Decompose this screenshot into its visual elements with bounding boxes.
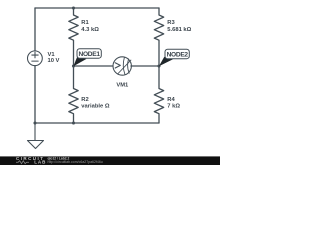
svg-text:7 kΩ: 7 kΩ bbox=[167, 103, 180, 109]
wire middle left (NODE1 to VM1) bbox=[74, 65, 114, 67]
svg-text:R2: R2 bbox=[81, 97, 88, 103]
node A flag NODE1 bbox=[73, 49, 101, 66]
svg-text:variable Ω: variable Ω bbox=[81, 103, 110, 109]
svg-text:R3: R3 bbox=[167, 20, 175, 26]
wire left vertical lower bbox=[34, 66, 36, 123]
watermark bar bbox=[0, 156, 220, 165]
resistor R1 bbox=[69, 8, 78, 66]
wire middle right (VM1 to NODE2) bbox=[131, 65, 159, 67]
resistor R4 bbox=[154, 66, 163, 123]
voltage source V1 bbox=[28, 51, 43, 66]
svg-text:4.3 kΩ: 4.3 kΩ bbox=[81, 27, 99, 33]
svg-text:NODE1: NODE1 bbox=[78, 51, 100, 58]
wire bottom horizontal bbox=[35, 122, 159, 124]
voltmeter VM1 bbox=[113, 57, 131, 75]
labels bbox=[48, 20, 192, 109]
resistor R2 bbox=[69, 66, 78, 123]
node dot NODE2 junction bbox=[157, 64, 160, 67]
wire left vertical upper bbox=[34, 8, 36, 51]
svg-text:VM1: VM1 bbox=[116, 83, 129, 89]
svg-text:R1: R1 bbox=[81, 20, 89, 26]
node dot bottom middle bbox=[72, 121, 75, 124]
wire top horizontal bbox=[35, 7, 159, 9]
svg-text:5.681 kΩ: 5.681 kΩ bbox=[167, 27, 191, 33]
svg-text:http://circuitlab.com/c6a27pa6: http://circuitlab.com/c6a27pa62f46u bbox=[48, 160, 103, 164]
junction dots bbox=[33, 6, 160, 124]
svg-text:LAB: LAB bbox=[34, 160, 46, 165]
ground bbox=[28, 123, 44, 149]
svg-text:R4: R4 bbox=[167, 97, 175, 103]
svg-text:NODE2: NODE2 bbox=[167, 51, 189, 58]
node dot NODE1 junction bbox=[72, 64, 75, 67]
svg-text:10 V: 10 V bbox=[48, 58, 60, 64]
node dot bottom left bbox=[33, 121, 36, 124]
resistor R3 bbox=[154, 8, 163, 66]
logo zigzag bbox=[16, 161, 29, 164]
node B flag NODE2 bbox=[159, 49, 189, 66]
node dot top middle bbox=[72, 6, 75, 9]
